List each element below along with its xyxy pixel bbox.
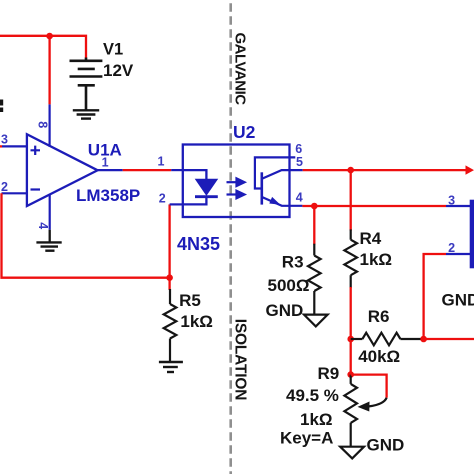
- op-amp minus input mark: [31, 188, 41, 190]
- wire: U2 pin 5 (collector) to right edge: [303, 169, 468, 171]
- svg-text:4: 4: [36, 222, 50, 229]
- emitter with arrow: [263, 197, 303, 206]
- ground (op-amp pin 4): [49, 230, 51, 242]
- junction: emitter / R3: [311, 203, 318, 210]
- svg-text:49.5 %: 49.5 %: [286, 386, 339, 405]
- pin stub: U2 pin 1: [171, 169, 183, 171]
- junction: R6 right node: [420, 336, 427, 343]
- battery V1: [70, 58, 103, 110]
- light arrow lower: [227, 191, 245, 199]
- resistor R5: [169, 289, 171, 304]
- junction: collector / R4: [347, 167, 354, 174]
- op-amp plus input mark: [31, 146, 41, 155]
- base wire and pin 6 stub: [255, 157, 295, 188]
- svg-text:1kΩ: 1kΩ: [360, 250, 393, 269]
- svg-text:1kΩ: 1kΩ: [180, 312, 213, 331]
- svg-text:GALVANIC: GALVANIC: [232, 33, 249, 106]
- ground (R5): [159, 362, 183, 372]
- svg-text:ISOLATION: ISOLATION: [232, 319, 249, 400]
- svg-text:12V: 12V: [103, 61, 134, 80]
- op-amp U1A: [27, 134, 98, 206]
- wire: collector junction down to R4: [350, 170, 352, 230]
- svg-text:Key=A: Key=A: [280, 428, 333, 447]
- pin stub: op-amp pin 3: [2, 145, 27, 147]
- wire: R6 right node to right edge: [424, 338, 474, 340]
- svg-text:LM358P: LM358P: [76, 186, 140, 205]
- svg-text:1: 1: [158, 155, 165, 169]
- pin stub: right component pin 2: [446, 253, 470, 255]
- wire: junction down to op-amp pin 8: [48, 36, 50, 105]
- svg-text:3: 3: [448, 193, 455, 207]
- svg-text:5: 5: [296, 155, 303, 169]
- ground (battery): [73, 110, 99, 118]
- svg-text:U2: U2: [233, 122, 256, 142]
- pin stub: op-amp pin 1 output: [95, 169, 123, 171]
- junction: top rail to op-amp V+: [46, 33, 53, 40]
- wire: U2 pin 4 (emitter) to right component pin 3: [302, 205, 446, 207]
- svg-text:GND: GND: [266, 301, 304, 320]
- GND arrow (R9): [340, 447, 364, 459]
- wire: op-amp output to U2 pin 1: [123, 169, 172, 171]
- svg-text:2: 2: [159, 192, 166, 206]
- resistor R4: [350, 229, 352, 239]
- svg-text:R9: R9: [318, 364, 340, 383]
- pin stub: U2 pin 2: [170, 203, 183, 205]
- right component box (cropped): [470, 200, 474, 269]
- wire: top rail to battery: [0, 36, 86, 59]
- potentiometer R9: [350, 375, 352, 384]
- junction: feedback / R5 node: [166, 274, 173, 281]
- svg-text:4: 4: [296, 190, 303, 204]
- isolation boundary dashed line: [229, 0, 232, 474]
- svg-text:40kΩ: 40kΩ: [358, 347, 400, 366]
- light arrow upper: [227, 178, 245, 186]
- wire: R6 right node up to right component pin 2: [424, 254, 446, 339]
- svg-text:3: 3: [1, 133, 8, 147]
- cropped label fragment at left edge: [0, 100, 3, 106]
- R9 wiper arrow: [368, 398, 387, 407]
- arrowhead at right edge of collector wire: [466, 165, 474, 174]
- wire: feedback from op-amp pin 2 down and right: [2, 193, 170, 277]
- wire: R4 bottom to R6/R9 node: [350, 287, 352, 375]
- resistor R3: [313, 244, 315, 256]
- optocoupler U2 box: [183, 145, 290, 218]
- svg-text:2: 2: [448, 241, 455, 255]
- svg-text:1kΩ: 1kΩ: [300, 410, 333, 429]
- pin stub: op-amp pin 2: [2, 192, 27, 194]
- collector: [263, 170, 303, 178]
- svg-text:GND: GND: [367, 435, 405, 454]
- svg-text:U1A: U1A: [88, 141, 122, 160]
- wire: U2 pin 2 down to feedback node: [168, 204, 170, 277]
- pin stub: right component pin 3: [446, 205, 470, 207]
- svg-text:R6: R6: [368, 307, 390, 326]
- LED inside U2: [183, 170, 207, 180]
- svg-text:V1: V1: [103, 41, 123, 59]
- wire stub: pin 3 input: [0, 145, 2, 147]
- svg-text:500Ω: 500Ω: [268, 276, 310, 295]
- svg-text:R4: R4: [360, 229, 382, 248]
- pin stub: op-amp pin 4: [49, 194, 51, 229]
- svg-text:4N35: 4N35: [177, 234, 220, 254]
- svg-text:R5: R5: [179, 291, 201, 310]
- pin stub: op-amp pin 8: [48, 104, 50, 146]
- svg-text:2: 2: [1, 180, 8, 194]
- resistor R6 (horizontal): [351, 338, 363, 340]
- GND arrow (R3): [304, 315, 328, 327]
- junction: R9 top node: [347, 371, 354, 378]
- junction: R4 / R6: [347, 336, 354, 343]
- R9 wiper wire: [351, 375, 387, 398]
- wire: down to R3: [313, 206, 315, 245]
- svg-text:8: 8: [36, 121, 50, 128]
- svg-text:GND: GND: [442, 291, 474, 310]
- base bar: [260, 172, 263, 204]
- wire: node down to R5: [168, 278, 170, 290]
- svg-text:R3: R3: [282, 252, 304, 271]
